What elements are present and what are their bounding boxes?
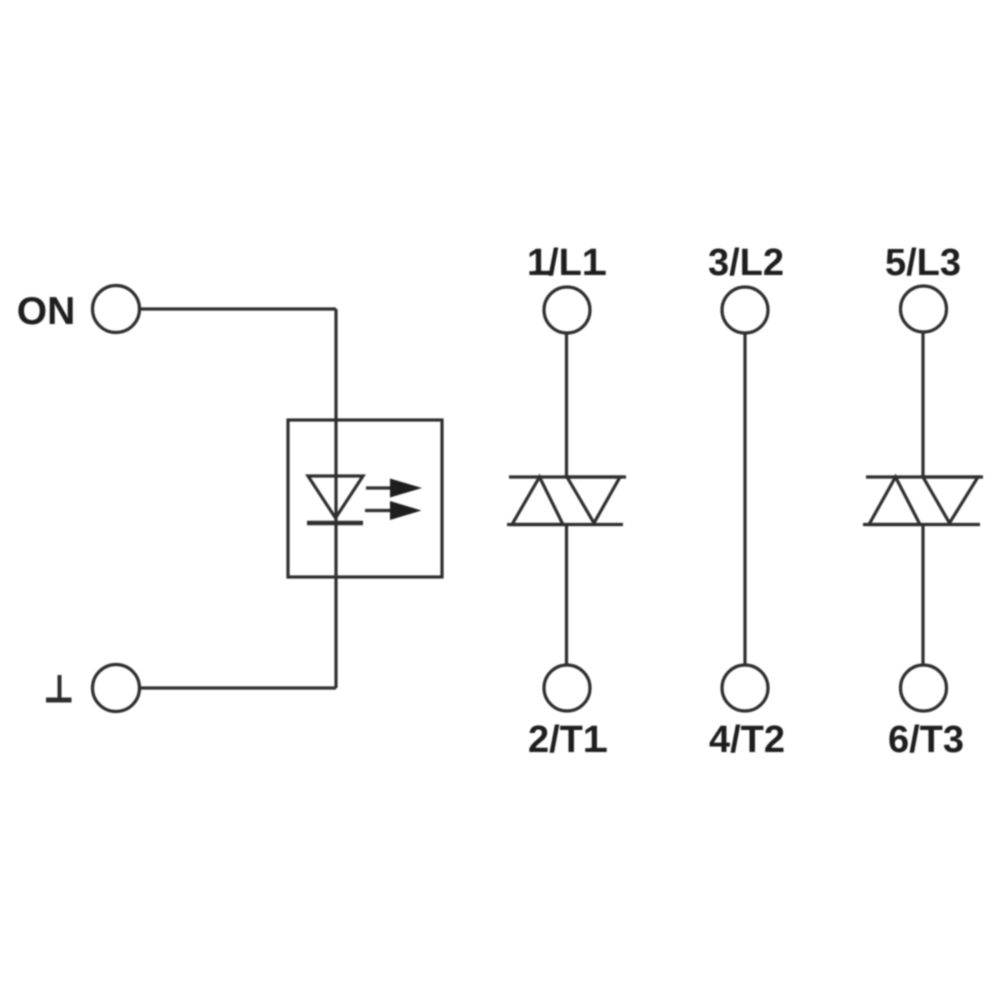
LED light arrow 1: [366, 479, 422, 498]
terminal ON: [93, 286, 140, 333]
terminal 6/T3: [901, 665, 947, 711]
svg-text:6/T3: 6/T3: [888, 719, 964, 761]
wire 1/L1 to triac Q1: [565, 333, 568, 477]
terminal ground: [93, 665, 140, 712]
triac Q1: [507, 477, 626, 525]
ground symbol: [46, 675, 72, 700]
control input box U1: [288, 420, 442, 577]
LED D1 triangle: [308, 476, 363, 518]
LED light arrow 2: [365, 501, 422, 520]
terminal 1/L1: [544, 287, 590, 333]
svg-text:5/L3: 5/L3: [885, 242, 961, 284]
svg-text:ON: ON: [17, 290, 76, 333]
terminal 5/L3: [901, 286, 947, 332]
svg-text:3/L2: 3/L2: [708, 242, 784, 284]
triac Q2: [863, 477, 983, 525]
wire 3/L2 to 4/T2: [743, 333, 746, 665]
LED D1 cathode bar: [307, 521, 363, 526]
svg-text:1/L1: 1/L1: [527, 242, 603, 284]
svg-text:4/T2: 4/T2: [709, 719, 785, 761]
wire box to ground terminal (horizontal): [140, 686, 336, 689]
wire down into control box: [334, 309, 337, 688]
terminal 4/T2: [722, 665, 768, 711]
wire 5/L3 to triac Q2: [921, 332, 924, 477]
wire triac Q2 to 6/T3: [921, 524, 924, 665]
wire triac Q1 to 2/T1: [565, 524, 568, 665]
svg-text:2/T1: 2/T1: [528, 719, 604, 761]
terminal 3/L2: [722, 287, 768, 333]
wire ON to control box (horizontal): [140, 307, 336, 310]
terminal 2/T1: [544, 665, 590, 711]
